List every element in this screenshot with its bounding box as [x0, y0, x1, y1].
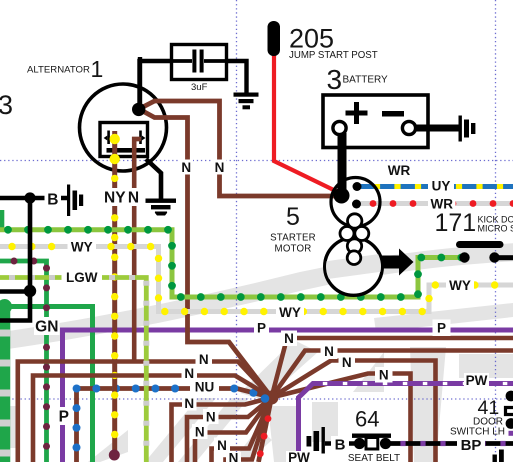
starter terminals — [353, 182, 362, 191]
svg-text:3: 3 — [0, 90, 13, 120]
svg-text:N: N — [217, 438, 227, 453]
switch door LH 41 — [506, 391, 513, 402]
label PW — [464, 373, 489, 388]
node fan junction — [265, 391, 279, 405]
svg-text:171: 171 — [435, 209, 477, 237]
svg-text:SWITCH LH: SWITCH LH — [450, 427, 505, 438]
label N — [281, 331, 297, 347]
svg-text:WR: WR — [388, 163, 411, 178]
label B — [45, 191, 62, 207]
ground seat belt — [307, 427, 325, 454]
svg-text:PW: PW — [466, 373, 488, 388]
wire N fan-left 4 — [187, 398, 272, 462]
label P — [254, 320, 269, 336]
svg-text:SEAT BELT: SEAT BELT — [348, 453, 400, 462]
svg-text:B: B — [335, 436, 346, 453]
label WY — [276, 304, 304, 320]
wire battery positive lead — [338, 133, 347, 194]
wire black branch — [0, 289, 30, 294]
svg-text:1: 1 — [91, 56, 104, 82]
svg-text:WY: WY — [449, 278, 471, 293]
wire N fan-left 1 — [18, 362, 272, 462]
label N — [196, 352, 213, 367]
svg-text:UY: UY — [432, 179, 451, 194]
label PW — [286, 451, 312, 462]
svg-text:NU: NU — [195, 379, 215, 394]
label N — [203, 409, 219, 424]
svg-text:P: P — [59, 409, 69, 426]
wire seat belt B lead — [325, 441, 356, 446]
arrow output starter — [381, 249, 414, 276]
wire N alternator to fan junction — [139, 109, 272, 398]
wire N fan-left 6 — [212, 398, 272, 462]
label GN — [34, 317, 60, 335]
label WR — [428, 197, 456, 211]
wire B black vertical — [0, 198, 30, 321]
wire NY — [112, 131, 117, 455]
switch seat belt 64 — [354, 438, 365, 449]
wire capacitor right lead — [227, 61, 247, 93]
node green junction — [0, 299, 12, 314]
label N — [214, 438, 230, 453]
label P — [56, 407, 73, 425]
svg-text:3uF: 3uF — [191, 82, 208, 93]
wire NR red-dotted down from junction — [259, 398, 272, 462]
wire GW left edge vertical — [0, 306, 10, 462]
svg-text:N: N — [229, 450, 239, 462]
motor starter upper circle — [331, 178, 380, 227]
svg-text:NY: NY — [104, 190, 126, 207]
wire N fan-right 4 — [272, 374, 411, 462]
svg-text:N: N — [284, 331, 294, 346]
wire WR — [357, 201, 513, 206]
wire N fan-left 7 — [226, 398, 272, 462]
svg-text:3: 3 — [327, 64, 343, 95]
pin marks — [104, 131, 146, 145]
wire N fan-left 3 — [172, 398, 272, 462]
wire UY — [357, 184, 513, 189]
svg-text:B: B — [47, 192, 58, 209]
switch kick down micro 171 — [456, 241, 504, 248]
svg-text:WY: WY — [279, 305, 301, 320]
label N — [226, 452, 241, 462]
connector box alternator — [100, 123, 148, 157]
svg-text:STARTER: STARTER — [270, 233, 316, 244]
node alternator terminal — [132, 103, 145, 116]
wire N fan-right 1 — [272, 338, 513, 398]
label WR — [386, 163, 412, 178]
label N — [213, 160, 227, 175]
op alternator circle 1 — [80, 84, 167, 171]
wire N alternator pin x134 — [134, 139, 140, 362]
wire alternator earth lead — [146, 159, 161, 199]
svg-text:N: N — [184, 396, 194, 411]
label NY — [103, 188, 127, 206]
svg-text:ALTERNATOR: ALTERNATOR — [27, 65, 90, 76]
svg-text:N: N — [379, 368, 389, 383]
label UY — [428, 179, 454, 193]
svg-text:P: P — [257, 321, 266, 336]
svg-text:205: 205 — [289, 24, 334, 54]
svg-text:N: N — [199, 352, 209, 367]
label N — [182, 396, 197, 411]
label N — [180, 160, 194, 175]
wire N alternator to starter — [139, 101, 342, 196]
svg-text:N: N — [128, 190, 139, 207]
capacitor C 3uF — [172, 45, 227, 80]
svg-text:N: N — [206, 409, 216, 424]
label N — [321, 344, 338, 360]
connector bottom right corner — [493, 450, 504, 462]
wire WY — [0, 247, 513, 312]
wire GN — [0, 261, 47, 462]
ground capacitor — [234, 93, 259, 110]
svg-text:N: N — [195, 424, 205, 439]
label N — [192, 424, 208, 439]
svg-text:WY: WY — [71, 240, 93, 255]
label NU — [190, 379, 219, 395]
wire R red from jump start post — [274, 53, 343, 195]
wire NU — [77, 389, 272, 462]
svg-text:N: N — [181, 160, 191, 175]
svg-text:N: N — [342, 355, 352, 370]
wire BP — [388, 441, 513, 446]
wire G green y307 to vertical x92 — [0, 307, 93, 462]
pin stub N — [132, 137, 141, 141]
battery 3 — [323, 95, 428, 148]
wire LGW — [0, 278, 146, 462]
pin yellow blobs NY — [110, 134, 120, 144]
node NY bottom junction — [109, 450, 120, 461]
starter small circles chain — [340, 214, 369, 265]
wire capacitor left lead — [140, 61, 172, 103]
chassis connector symbol — [459, 116, 476, 142]
svg-text:BATTERY: BATTERY — [343, 75, 389, 86]
wire alternator top lead — [138, 57, 142, 104]
label BP — [457, 437, 485, 453]
svg-text:5: 5 — [286, 203, 300, 231]
label N — [127, 188, 140, 206]
wire battery negative to chassis — [415, 125, 459, 132]
wire B black to earth — [0, 196, 67, 201]
label B — [331, 436, 349, 452]
ground chassis symbol near B — [67, 185, 83, 217]
wire G stub at left edge — [0, 210, 4, 231]
wire P purple — [63, 330, 513, 462]
svg-text:64: 64 — [355, 407, 379, 432]
svg-text:MICRO SW: MICRO SW — [478, 224, 513, 234]
svg-text:MOTOR: MOTOR — [275, 244, 312, 255]
svg-text:BP: BP — [461, 437, 482, 454]
jump start post 205 — [268, 21, 281, 56]
svg-text:N: N — [324, 344, 334, 359]
label P — [433, 320, 451, 337]
node starter terminal blob — [334, 188, 350, 204]
wire N fan-right 2 — [272, 351, 513, 398]
svg-text:LGW: LGW — [66, 270, 98, 285]
label N — [182, 366, 198, 381]
svg-text:PW: PW — [288, 450, 310, 462]
wire N fan-left 5 — [195, 398, 272, 462]
label N — [375, 367, 393, 383]
wire N fan-right 3 — [272, 361, 436, 462]
svg-text:N: N — [215, 160, 225, 175]
ground alternator — [146, 199, 177, 216]
svg-text:GN: GN — [35, 319, 58, 336]
node B junction dots — [24, 192, 35, 203]
battery terminals — [333, 121, 346, 134]
svg-text:JUMP START POST: JUMP START POST — [289, 50, 378, 61]
wire G green with dots to micro switch — [0, 230, 463, 297]
label WY — [68, 239, 97, 255]
label LGW — [62, 269, 103, 285]
svg-text:P: P — [437, 321, 446, 336]
label WY — [446, 278, 474, 293]
label N — [339, 355, 356, 371]
wire PW — [299, 384, 513, 462]
wire N fan-left 2 — [33, 376, 272, 462]
